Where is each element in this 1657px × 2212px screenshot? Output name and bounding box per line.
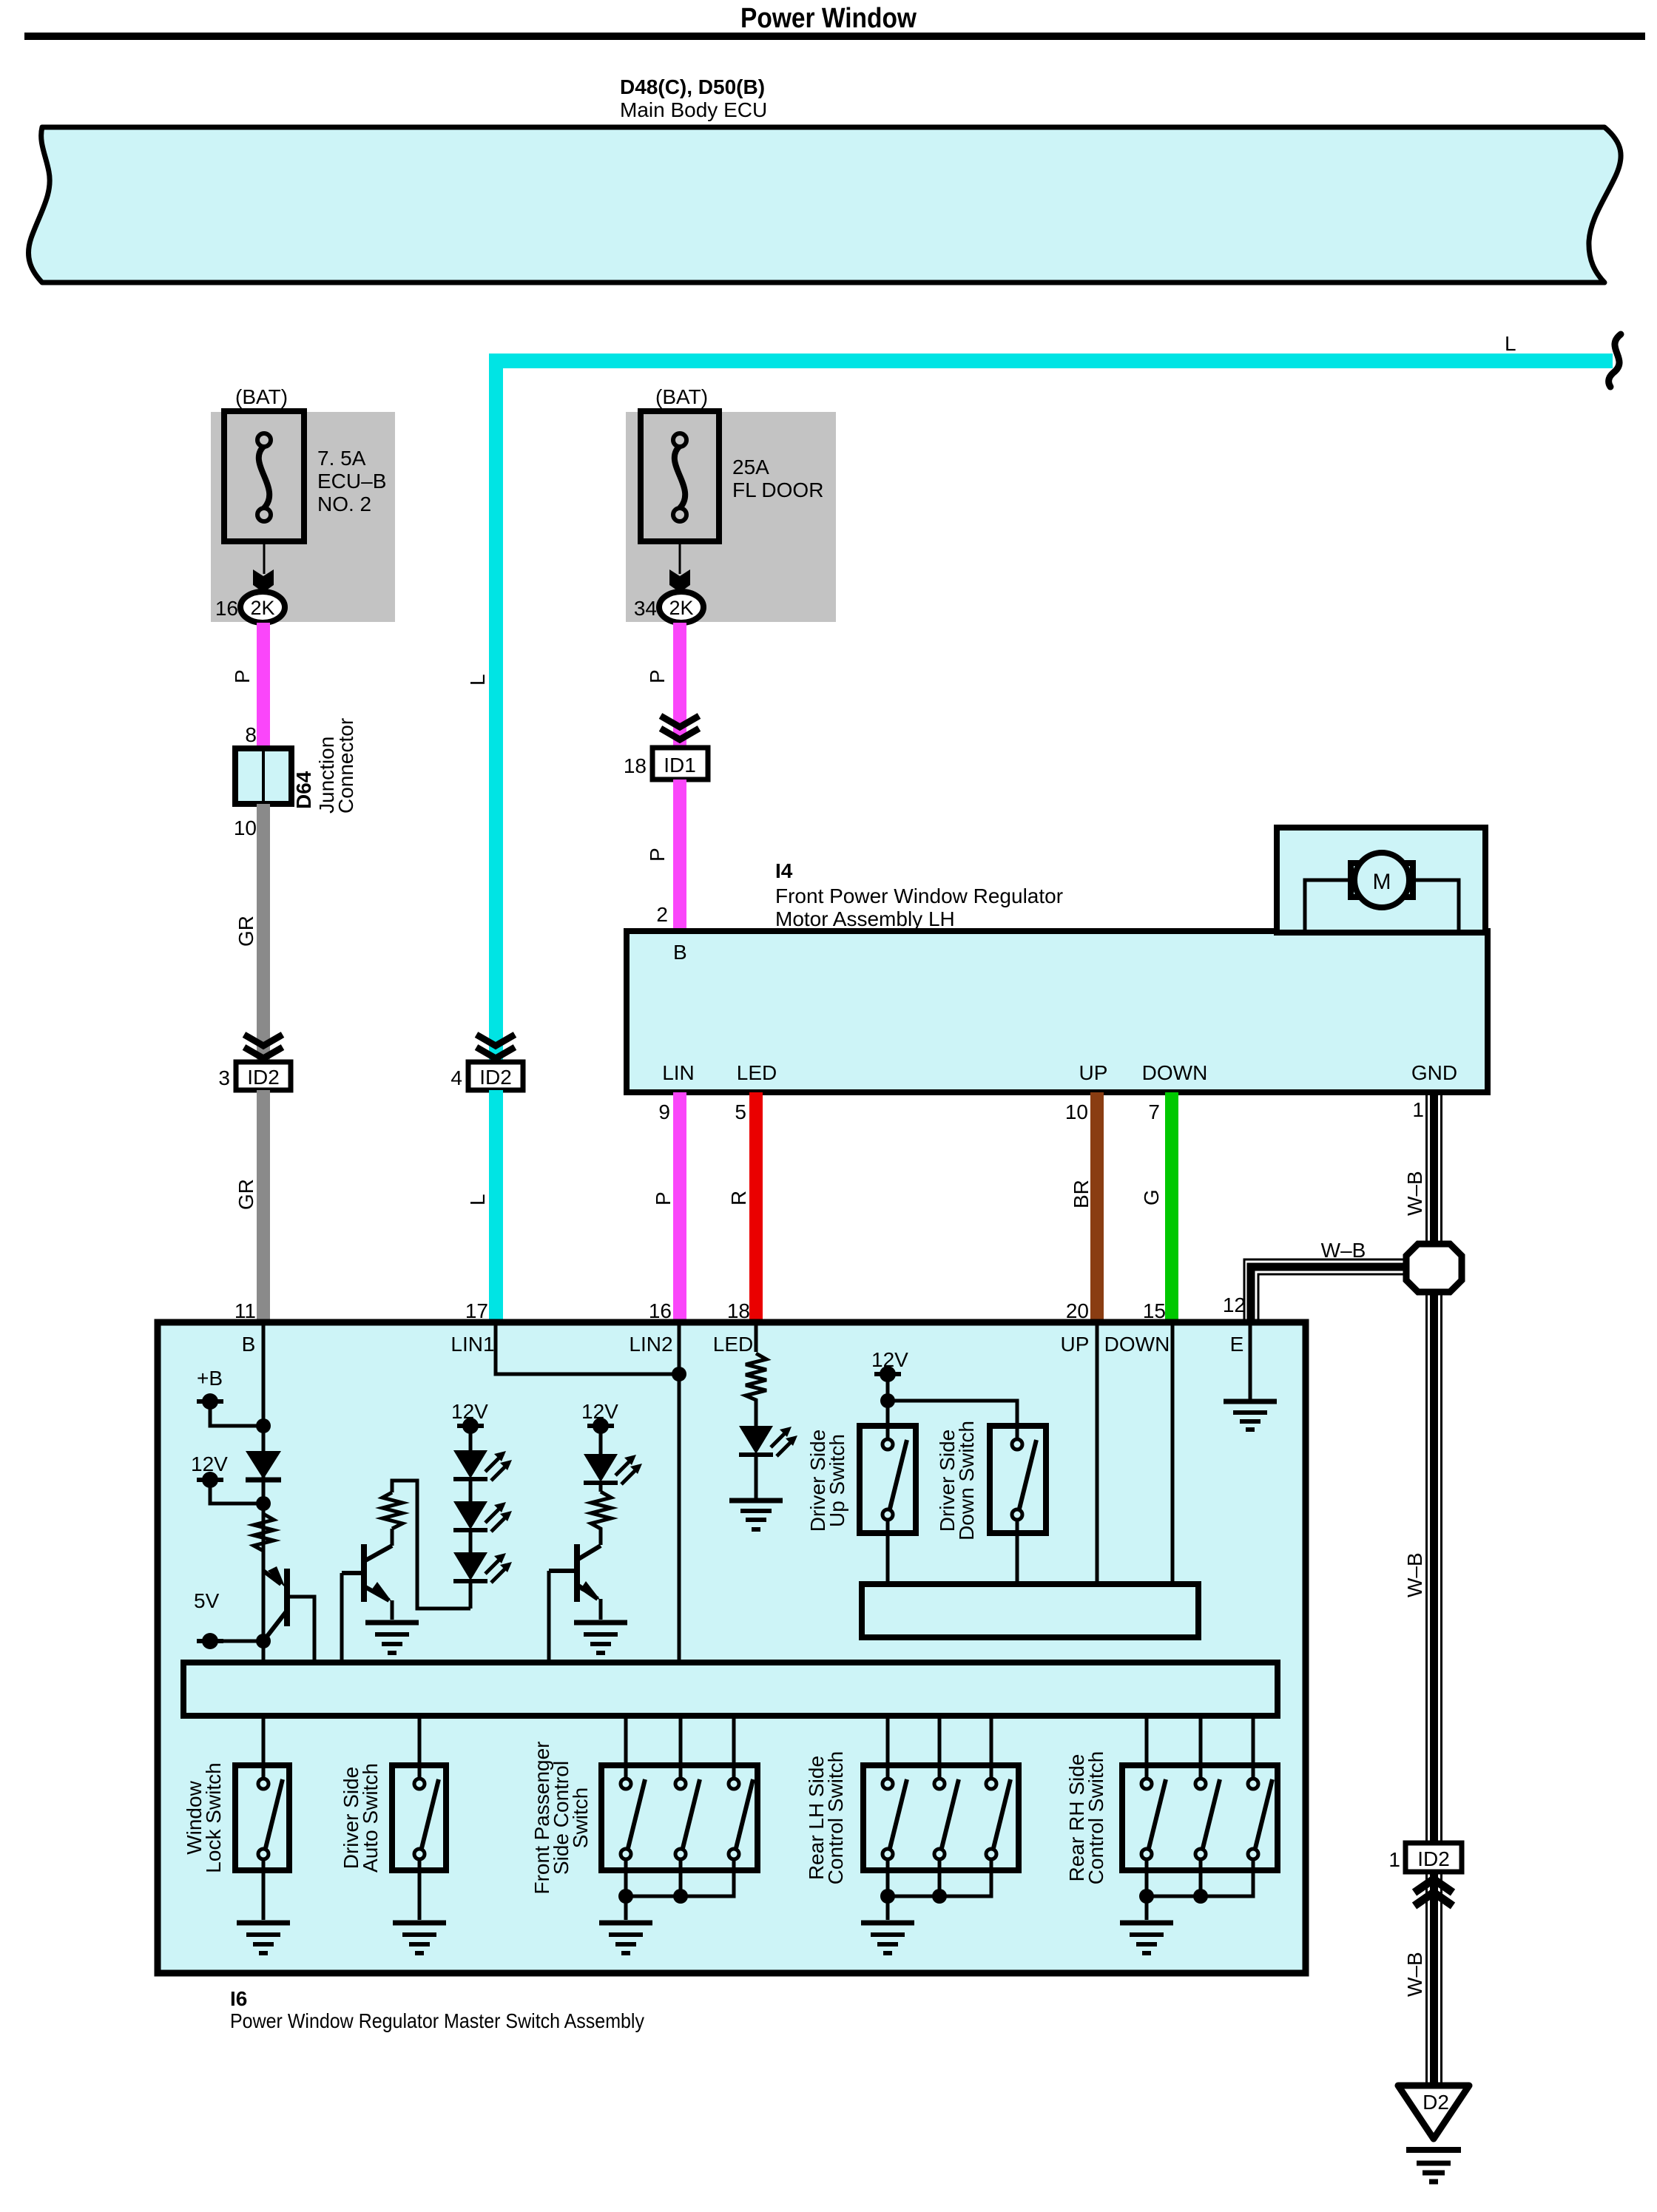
wires bus to rear RH switch <box>1147 1716 1253 1778</box>
label B pin inside I4 <box>673 941 687 964</box>
resistor R1 on B line <box>254 1514 274 1556</box>
label D64 Junction Connector <box>292 718 357 814</box>
svg-text:W–B: W–B <box>1403 1552 1426 1597</box>
transistor Q3 LIN2 <box>549 1544 601 1663</box>
svg-text:20: 20 <box>1066 1299 1089 1322</box>
wire +B to node <box>210 1401 260 1426</box>
svg-text:M: M <box>1373 870 1391 894</box>
title rule <box>24 33 1645 40</box>
switch S3 window lock <box>235 1765 289 1920</box>
internal bus bar <box>183 1663 1278 1716</box>
label P fuse 2 <box>646 669 669 683</box>
break squiggle at wire L end <box>1609 334 1621 387</box>
label UP pin of I6 <box>1061 1333 1090 1356</box>
label Driver Side Up Switch <box>806 1430 848 1532</box>
wires below rear LH switch <box>880 1860 991 1920</box>
svg-text:7: 7 <box>1148 1100 1160 1123</box>
svg-text:L: L <box>1505 332 1516 355</box>
connector ID2 pin 1 bottom <box>1388 1843 1462 1872</box>
node junction octagon <box>1406 1244 1462 1292</box>
svg-text:2K: 2K <box>669 597 693 619</box>
svg-text:8: 8 <box>245 723 257 746</box>
label DOWN pin of I6 <box>1104 1333 1170 1356</box>
title: Power Window <box>740 3 917 34</box>
ground symbol below front passenger switch <box>599 1923 652 1953</box>
svg-text:Up Switch: Up Switch <box>826 1434 848 1527</box>
wire P from fuse F2 to ID1 <box>673 623 686 748</box>
svg-text:10: 10 <box>1065 1100 1088 1123</box>
svg-text:R: R <box>727 1191 750 1205</box>
wire fuse F2 to connector <box>679 541 681 574</box>
label P <box>231 669 254 683</box>
component I4 motor assembly box <box>627 931 1488 1092</box>
wire 12V to driver down switch <box>888 1401 1017 1438</box>
wires below front passenger switch <box>618 1860 734 1920</box>
fuse F2 25A FL DOOR <box>641 411 719 541</box>
arrow below fuse F2 <box>669 569 690 592</box>
node 12V driver junction <box>880 1393 895 1408</box>
wire L from ID2 to I6 pin 17 <box>489 1090 503 1322</box>
label LIN2 pin of I6 <box>629 1333 672 1356</box>
label W-B vertical upper <box>1403 1171 1426 1216</box>
arrow below connector ID2 bottom <box>1414 1879 1453 1906</box>
fuse block background 1 <box>211 412 395 622</box>
svg-text:1: 1 <box>1388 1848 1400 1871</box>
label Driver Side Down Switch <box>936 1421 978 1540</box>
label E pin of I6 <box>1230 1333 1244 1356</box>
ground symbol below Q3 <box>574 1623 627 1653</box>
svg-text:UP: UP <box>1079 1061 1108 1084</box>
svg-text:15: 15 <box>1143 1299 1166 1322</box>
svg-text:P: P <box>646 848 669 862</box>
svg-text:25A: 25A <box>732 456 769 478</box>
pin 9 of I4 <box>658 1100 670 1123</box>
pin 16 of I6 <box>649 1299 672 1322</box>
node LIN1-LIN2 junction <box>672 1367 686 1381</box>
svg-text:ID2: ID2 <box>1417 1847 1450 1870</box>
svg-text:34: 34 <box>634 597 657 620</box>
svg-text:ECU–B: ECU–B <box>317 470 386 493</box>
svg-text:P: P <box>652 1191 675 1205</box>
svg-text:BR: BR <box>1070 1180 1093 1208</box>
label GR <box>234 916 257 947</box>
label G <box>1140 1189 1163 1205</box>
wire P from I4 LIN to I6 LIN2 <box>673 1092 686 1322</box>
pin 12V LIN2 <box>581 1400 618 1454</box>
LED diode LIN2 <box>584 1454 642 1484</box>
pin 1 of I4 <box>1412 1098 1424 1121</box>
svg-text:B: B <box>242 1333 256 1356</box>
label (BAT) fuse 2 <box>655 385 708 408</box>
motor sub-box <box>1277 828 1485 933</box>
svg-text:Auto Switch: Auto Switch <box>359 1763 382 1873</box>
label Rear LH Side Control Switch <box>805 1751 847 1885</box>
svg-text:Motor Assembly LH: Motor Assembly LH <box>775 907 955 930</box>
switch S5 front passenger side control <box>601 1765 757 1870</box>
component I6 Power Window Regulator Master Switch Assembly box <box>158 1322 1306 1973</box>
label GR lower <box>234 1179 257 1210</box>
svg-text:LIN: LIN <box>662 1061 695 1084</box>
svg-text:16: 16 <box>215 597 238 620</box>
svg-text:I6: I6 <box>230 1987 247 2010</box>
svg-text:E: E <box>1230 1333 1244 1356</box>
svg-text:FL DOOR: FL DOOR <box>732 478 823 501</box>
wire BR from I4 UP to I6 UP <box>1090 1092 1104 1322</box>
svg-text:4: 4 <box>450 1066 462 1089</box>
LED chain diode 1 <box>453 1450 512 1501</box>
svg-text:2K: 2K <box>250 597 274 619</box>
ground point D2 triangle <box>1398 2086 1469 2139</box>
pin 12V left <box>191 1452 228 1488</box>
svg-text:UP: UP <box>1061 1333 1090 1356</box>
label L lower <box>466 1194 489 1205</box>
label Power Window Regulator Master Switch Assembly <box>230 2009 644 2032</box>
label fuse F2 value <box>732 456 823 501</box>
label W-B horizontal <box>1321 1239 1366 1262</box>
svg-text:18: 18 <box>727 1299 750 1322</box>
pin 17 of I6 <box>465 1299 488 1322</box>
label L mid <box>466 674 489 686</box>
label LIN pin of I4 <box>662 1061 695 1084</box>
wire motor left lead <box>1305 880 1351 931</box>
switch S6 rear LH side control <box>863 1765 1019 1870</box>
pin 10 of D64 <box>234 816 257 839</box>
transistor Q1 <box>263 1556 314 1663</box>
connector ID2 pin 4 <box>450 1062 523 1090</box>
switch S2 driver side down <box>990 1426 1046 1584</box>
switch S4 driver side auto <box>392 1765 446 1920</box>
ground symbol below LED pin <box>729 1501 783 1529</box>
wires bus to front passenger switch <box>626 1716 734 1778</box>
wire LED pin internal <box>755 1325 758 1352</box>
label I6 <box>230 1987 247 2010</box>
pin 10 of I4 <box>1065 1100 1088 1123</box>
pin 5 of I4 <box>735 1100 746 1123</box>
svg-text:16: 16 <box>649 1299 672 1322</box>
wire L vertical to ID2 pin 4 <box>489 354 503 1062</box>
label D48(C), D50(B) Main Body ECU <box>620 75 767 121</box>
svg-text:Down Switch: Down Switch <box>955 1421 978 1540</box>
junction connector D64 <box>235 748 291 804</box>
ground symbol at E pin <box>1224 1401 1277 1430</box>
wire P from fuse F1 to D64 <box>257 623 270 748</box>
svg-text:10: 10 <box>234 816 257 839</box>
LED diode at LED pin <box>739 1426 797 1499</box>
diode D1 on B line <box>246 1451 281 1480</box>
svg-text:1: 1 <box>1412 1098 1424 1121</box>
ECU U1 Main Body ECU band (torn-edge box) <box>28 127 1621 283</box>
svg-text:Front Power Window Regulator: Front Power Window Regulator <box>775 885 1063 907</box>
label Front Passenger Side Control Switch <box>530 1742 592 1895</box>
wire W-B from ID2 to ground D2 <box>1425 1872 1442 2086</box>
wires below rear RH switch <box>1139 1860 1253 1920</box>
wire UP internal line <box>1096 1325 1099 1584</box>
svg-text:DOWN: DOWN <box>1142 1061 1208 1084</box>
pin 20 of I6 <box>1066 1299 1089 1322</box>
svg-text:W–B: W–B <box>1403 1171 1426 1216</box>
arrow below fuse F1 <box>253 569 274 592</box>
pin 12V LED chain <box>451 1400 488 1450</box>
label (BAT) fuse 1 <box>235 385 288 408</box>
svg-text:GR: GR <box>234 916 257 947</box>
label I4 Front Power Window Regulator Motor Assembly LH <box>775 859 1063 930</box>
ground symbol D2 <box>1406 2150 1461 2182</box>
svg-text:7. 5A: 7. 5A <box>317 447 366 470</box>
node B-5V junction <box>256 1634 271 1663</box>
svg-text:5: 5 <box>735 1100 746 1123</box>
svg-text:W–B: W–B <box>1403 1952 1426 1997</box>
label Window Lock Switch <box>183 1762 225 1873</box>
svg-text:D48(C), D50(B): D48(C), D50(B) <box>620 75 765 98</box>
svg-text:D2: D2 <box>1423 2091 1449 2114</box>
svg-text:LIN1: LIN1 <box>450 1333 494 1356</box>
label B pin of I6 <box>242 1333 256 1356</box>
node B-plusB junction <box>256 1418 271 1433</box>
pin 18 of I6 <box>727 1299 750 1322</box>
wire GR from D64 to ID2 <box>257 804 270 1062</box>
connector ID2 pin 3 <box>218 1062 291 1090</box>
svg-text:I4: I4 <box>775 859 793 882</box>
wire B internal line <box>262 1325 266 1663</box>
label fuse F1 value <box>317 447 386 515</box>
resistor R4 LED pin <box>746 1353 766 1426</box>
svg-text:LIN2: LIN2 <box>629 1333 672 1356</box>
pin 12 of I6 <box>1223 1293 1246 1316</box>
label GND pin of I4 <box>1411 1061 1457 1084</box>
connector 2K pin 16 <box>215 592 285 623</box>
switch S1 driver side up <box>860 1426 916 1584</box>
resistor R2 above Q2 <box>382 1481 470 1609</box>
label Rear RH Side Control Switch <box>1065 1751 1107 1885</box>
svg-text:DOWN: DOWN <box>1104 1333 1170 1356</box>
svg-text:P: P <box>646 669 669 683</box>
label UP pin of I4 <box>1079 1061 1108 1084</box>
ground symbol below driver auto switch <box>393 1923 446 1953</box>
wire 5V to node <box>210 1640 260 1643</box>
svg-text:Control Switch: Control Switch <box>1084 1751 1107 1885</box>
svg-text:P: P <box>231 669 254 683</box>
node B-12V junction <box>256 1496 271 1511</box>
connector ID1 pin 18 <box>624 748 708 779</box>
pin +B <box>197 1367 223 1410</box>
wire L horizontal from ECU <box>489 354 1613 368</box>
pin 11 of I6 <box>234 1299 256 1322</box>
label W-B vertical middle <box>1403 1552 1426 1597</box>
label P LIN wire <box>652 1191 675 1205</box>
wire W-B horizontal from node to I6 pin 12 <box>1244 1259 1406 1322</box>
label LIN1 pin of I6 <box>450 1333 494 1356</box>
wire LIN1 internal line <box>496 1325 679 1374</box>
pin 12V driver switches <box>871 1348 908 1401</box>
svg-text:G: G <box>1140 1189 1163 1205</box>
label P below ID1 <box>646 848 669 862</box>
wire bus to window lock switch <box>262 1716 266 1778</box>
arrow above connector ID2 pin 4 <box>476 1035 515 1058</box>
wire E internal line <box>1249 1325 1252 1400</box>
svg-text:Power Window Regulator Master: Power Window Regulator Master Switch Ass… <box>230 2009 644 2032</box>
wire 12V to node <box>210 1480 260 1504</box>
LED chain diode 2 <box>453 1501 512 1552</box>
svg-text:NO. 2: NO. 2 <box>317 493 371 515</box>
svg-text:18: 18 <box>624 754 647 777</box>
svg-text:ID2: ID2 <box>247 1066 280 1089</box>
pin 15 of I6 <box>1143 1299 1166 1322</box>
svg-text:L: L <box>466 1194 489 1205</box>
resistor R3 LIN2 <box>591 1483 611 1545</box>
svg-text:D64: D64 <box>292 771 315 809</box>
LED chain diode 3 <box>453 1552 512 1609</box>
label L top <box>1505 332 1516 355</box>
label LED pin of I6 <box>713 1333 753 1356</box>
motor M symbol <box>1351 853 1413 907</box>
svg-text:9: 9 <box>658 1100 670 1123</box>
svg-text:LED: LED <box>713 1333 753 1356</box>
fuse block background 2 <box>626 412 836 622</box>
svg-text:Switch: Switch <box>569 1787 592 1848</box>
ground symbol below rear RH switch <box>1120 1923 1173 1953</box>
wire DOWN internal line <box>1171 1325 1175 1584</box>
fuse F1 7.5A ECU-B NO.2 <box>224 411 304 541</box>
wire GR from ID2 to I6 pin 11 <box>257 1090 270 1322</box>
svg-text:3: 3 <box>218 1066 230 1089</box>
driver switch sub-bus <box>862 1584 1198 1637</box>
wire LIN2 internal line <box>678 1325 681 1663</box>
wire W-B from node down to ID2 pin 1 <box>1425 1292 1442 1843</box>
svg-text:Main Body ECU: Main Body ECU <box>620 98 767 121</box>
svg-text:L: L <box>466 674 489 686</box>
connector 2K pin 34 <box>634 592 703 623</box>
label W-B vertical lower <box>1403 1952 1426 1997</box>
label BR <box>1070 1180 1093 1208</box>
ground symbol below window lock switch <box>237 1923 290 1953</box>
svg-text:+B: +B <box>197 1367 223 1390</box>
wire bus to driver auto switch <box>418 1716 422 1778</box>
transistor Q2 <box>342 1544 392 1663</box>
svg-text:Connector: Connector <box>334 718 357 814</box>
svg-text:Power Window: Power Window <box>740 3 917 34</box>
wire fuse F1 to connector <box>263 541 266 574</box>
arrow above connector ID1 pin 18 <box>661 716 699 740</box>
pin 8 of D64 <box>245 723 257 746</box>
svg-text:ID2: ID2 <box>479 1066 512 1089</box>
label LED pin of I4 <box>737 1061 777 1084</box>
pin 5V <box>194 1589 223 1649</box>
svg-text:5V: 5V <box>194 1589 220 1612</box>
svg-text:(BAT): (BAT) <box>235 385 288 408</box>
wire R from I4 LED to I6 LED <box>749 1092 763 1322</box>
wire P from ID1 to motor I4 pin 2 <box>673 779 686 931</box>
svg-text:ID1: ID1 <box>664 754 696 777</box>
ground symbol below rear LH switch <box>861 1923 914 1953</box>
label Driver Side Auto Switch <box>340 1763 382 1873</box>
svg-text:B: B <box>673 941 687 964</box>
svg-text:17: 17 <box>465 1299 488 1322</box>
svg-text:(BAT): (BAT) <box>655 385 708 408</box>
pin 7 of I4 <box>1148 1100 1160 1123</box>
svg-text:12: 12 <box>1223 1293 1246 1316</box>
svg-text:GND: GND <box>1411 1061 1457 1084</box>
label R <box>727 1191 750 1205</box>
svg-text:W–B: W–B <box>1321 1239 1366 1262</box>
wire W-B from I4 GND to junction node <box>1425 1092 1442 1245</box>
wire G from I4 DOWN to I6 DOWN <box>1165 1092 1178 1322</box>
arrow above connector ID2 pin 3 <box>244 1035 283 1058</box>
svg-text:2: 2 <box>656 903 668 926</box>
svg-text:Control Switch: Control Switch <box>824 1751 847 1885</box>
svg-text:GR: GR <box>234 1179 257 1210</box>
svg-text:Lock Switch: Lock Switch <box>202 1762 225 1873</box>
switch S7 rear RH side control <box>1122 1765 1278 1870</box>
wire 12V to driver up switch <box>886 1401 890 1438</box>
wires bus to rear LH switch <box>888 1716 991 1778</box>
pin 2 of I4 <box>656 903 668 926</box>
svg-text:11: 11 <box>234 1299 256 1322</box>
ground symbol below Q2 <box>365 1623 419 1653</box>
svg-text:LED: LED <box>737 1061 777 1084</box>
label DOWN pin of I4 <box>1142 1061 1208 1084</box>
wire motor right lead <box>1413 880 1459 931</box>
